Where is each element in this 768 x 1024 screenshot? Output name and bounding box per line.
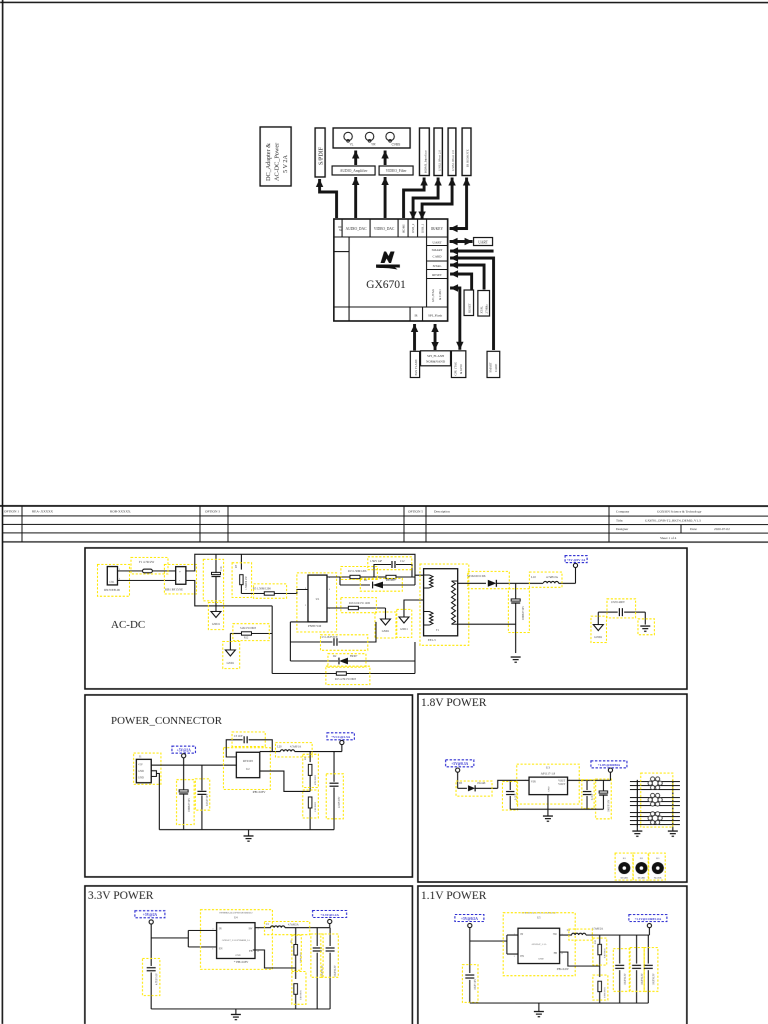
svg-text:Company: Company <box>616 510 629 514</box>
wire XTAL arrow <box>450 261 484 289</box>
svg-text:HDMI_Interface: HDMI_Interface <box>424 150 428 173</box>
svg-text:YR: YR <box>371 143 376 147</box>
connector AV ladder <box>630 773 680 827</box>
resistor divider R9 <box>292 968 306 1009</box>
svg-text:MARK: MARK <box>638 877 646 880</box>
power flag +5V 1.1V section <box>455 915 484 942</box>
svg-text:GND: GND <box>538 958 543 961</box>
capacitor C1 bulk <box>177 765 195 830</box>
capacitor C30 input <box>142 938 159 1009</box>
svg-text:47K/0603: 47K/0603 <box>314 774 317 785</box>
fiducial MARK1 <box>615 853 633 880</box>
svg-text:R1: R1 <box>623 857 627 860</box>
resistor R15 <box>272 642 415 685</box>
block SPDIF connector <box>315 128 325 177</box>
capacitor C21 <box>582 780 594 810</box>
svg-text:POWER_CONNECTOR: POWER_CONNECTOR <box>111 715 223 727</box>
svg-text:1.1V POWER: 1.1V POWER <box>421 890 487 902</box>
svg-text:RESET: RESET <box>432 273 442 277</box>
capacitor C13 feedback <box>290 622 376 650</box>
capacitor C2 <box>195 765 209 830</box>
block CPU JTAG <box>451 351 465 378</box>
svg-text:27MHz: 27MHz <box>485 304 489 314</box>
svg-text:CARD: CARD <box>433 255 443 259</box>
svg-text:U1: U1 <box>316 597 320 601</box>
block DC adapter power <box>260 127 291 186</box>
svg-text:Title:: Title: <box>616 519 623 523</box>
svg-text:C3 1UF: C3 1UF <box>234 735 243 738</box>
svg-text:SPI_Flash: SPI_Flash <box>428 314 442 318</box>
power flag VCC output <box>327 733 354 752</box>
svg-text:3.3V POWER: 3.3V POWER <box>88 890 154 902</box>
svg-text:MARK: MARK <box>654 877 662 880</box>
svg-text:IN: IN <box>520 933 523 936</box>
svg-text:Date:: Date: <box>690 527 697 531</box>
svg-text:SW: SW <box>248 927 252 930</box>
svg-text:EE1-3: EE1-3 <box>428 638 436 642</box>
svg-text:GND: GND <box>138 770 144 773</box>
title block grid <box>0 506 768 542</box>
chip GX6701 outline <box>334 219 448 321</box>
wire USB2 arrow <box>409 178 441 220</box>
wire bottom rail power connector <box>159 829 334 831</box>
svg-text:VIN: VIN <box>531 781 536 784</box>
svg-text:-: - <box>179 578 180 582</box>
svg-text:F1 4.7R/2W: F1 4.7R/2W <box>139 560 154 564</box>
svg-text:1: 1 <box>257 928 258 930</box>
svg-text:GND1: GND1 <box>212 622 221 626</box>
IC U5 SY8088 1.1V <box>503 912 575 976</box>
diode D1 <box>340 577 415 591</box>
svg-text:1: 1 <box>514 956 515 958</box>
svg-text:10UF/6.3V: 10UF/6.3V <box>652 973 655 985</box>
svg-text:FR307: FR307 <box>350 655 358 658</box>
svg-text:PAN FLASH: PAN FLASH <box>414 359 418 376</box>
svg-text:100UF/10V: 100UF/10V <box>607 800 610 813</box>
svg-text:* PB=0.8V: * PB=0.8V <box>234 960 249 964</box>
label 1.8V POWER <box>421 697 487 709</box>
power flag +3.3V output <box>313 910 347 927</box>
svg-text:U2: U2 <box>246 768 250 771</box>
svg-text:KB1 BF15/SE: KB1 BF15/SE <box>165 587 183 591</box>
svg-text:U4: U4 <box>234 916 238 919</box>
wire 1.8V bottom rail <box>510 808 603 810</box>
wire diode to VIN <box>498 780 529 788</box>
svg-text:AUDIO_DAC: AUDIO_DAC <box>346 227 368 231</box>
svg-text:NOR&NAND: NOR&NAND <box>426 360 446 364</box>
ground GND1 Y-cap left <box>591 616 607 642</box>
svg-text:+3.3V@1.2A: +3.3V@1.2A <box>320 913 339 917</box>
svg-text:L20: L20 <box>277 745 282 748</box>
wire 3.3V bottom rail <box>151 1008 330 1010</box>
capacitor C31 output <box>311 928 324 1009</box>
svg-text:S/PDIF: S/PDIF <box>319 146 325 165</box>
svg-text:U5: U5 <box>537 917 541 920</box>
page left border <box>1 0 3 1024</box>
svg-text:RS1M07: RS1M07 <box>386 579 396 582</box>
svg-text:10UF/6.3V: 10UF/6.3V <box>624 973 627 985</box>
resistor R12 divider <box>230 624 272 650</box>
svg-text:CPU JTAG: CPU JTAG <box>454 361 458 376</box>
title block texts <box>4 509 730 540</box>
svg-text:HDMI: HDMI <box>402 225 406 234</box>
resistor divider R11 <box>593 966 608 1003</box>
power flag +5V 1.8V section <box>446 760 474 789</box>
svg-text:2: 2 <box>305 605 306 607</box>
svg-text:100K/0603: 100K/0603 <box>603 986 606 998</box>
svg-text:+5V@2A: +5V@2A <box>143 913 158 917</box>
label 3.3V POWER <box>88 890 154 902</box>
svg-text:R12: R12 <box>244 636 249 639</box>
label POWER_CONNECTOR <box>111 715 223 727</box>
svg-text:APS2347_1.1A: APS2347_1.1A <box>531 943 546 946</box>
svg-text:+5V: +5V <box>138 763 143 766</box>
svg-text:R3: R3 <box>656 857 660 860</box>
block AUDIO amplifier <box>332 166 375 175</box>
svg-text:5 V 2A: 5 V 2A <box>282 154 289 173</box>
IC U4 SY8088 <box>200 910 272 970</box>
svg-text:D5: D5 <box>459 782 463 785</box>
svg-text:10UF/6.3V: 10UF/6.3V <box>334 965 337 977</box>
capacitor C20 input <box>502 780 517 810</box>
svg-text:& GPIO: & GPIO <box>438 289 442 300</box>
svg-text:RESET: RESET <box>468 303 472 313</box>
svg-text:D2: D2 <box>333 655 337 658</box>
svg-text:R2: R2 <box>640 857 644 860</box>
IC U1 PN8571M <box>297 573 337 632</box>
block IR remote <box>462 128 471 176</box>
ground GND1 under R12 <box>223 641 240 668</box>
svg-text:EN: EN <box>520 955 524 958</box>
block XTAL 27MHz <box>478 291 490 317</box>
fiducial MARK2 <box>633 853 648 880</box>
block RESET <box>464 290 474 316</box>
svg-text:R16 0.1R/1W 1206: R16 0.1R/1W 1206 <box>349 602 371 605</box>
svg-text:+1.8V@300MA: +1.8V@300MA <box>598 763 621 767</box>
svg-text:+5V@0.3A: +5V@0.3A <box>451 762 468 766</box>
svg-text:YL: YL <box>350 143 354 147</box>
diode D5 <box>456 781 498 796</box>
svg-text:4.7uH/1A: 4.7uH/1A <box>290 745 301 748</box>
svg-text:1.50M/R 2W: 1.50M/R 2W <box>245 576 248 590</box>
chip logo Nationalchip <box>376 251 400 269</box>
resistor divider R4 <box>303 790 319 830</box>
wire audio dac arrow <box>352 177 359 218</box>
svg-text:2020-07-02: 2020-07-02 <box>714 527 730 531</box>
svg-text:APS2417_3.3A/SYB4088_1A: APS2417_3.3A/SYB4088_1A <box>222 939 250 942</box>
wire RESET arrow <box>450 270 472 289</box>
wire U3 output rail <box>568 779 611 781</box>
wire UART arrow <box>450 238 473 245</box>
svg-text:SMART: SMART <box>432 248 443 252</box>
ground output cap <box>511 657 521 662</box>
svg-text:SW: SW <box>553 933 557 936</box>
svg-text:EN: EN <box>219 947 223 950</box>
inductor L6 <box>560 928 650 941</box>
wire 1.1V bottom rail <box>470 1002 649 1004</box>
wire HDMI arrow <box>404 178 428 219</box>
block VIDEO filter <box>379 166 413 175</box>
svg-text:AP1117-1.8: AP1117-1.8 <box>541 771 556 775</box>
ground GND1 transformer primary <box>397 600 424 637</box>
wire transformer return <box>458 623 516 625</box>
svg-text:1N4148: 1N4148 <box>477 782 486 785</box>
bridge rectifier KB1 <box>164 564 196 594</box>
svg-text:XTAL: XTAL <box>433 264 442 268</box>
wire AC-DC left bus <box>272 606 317 674</box>
svg-text:USB_2: USB_2 <box>411 223 415 233</box>
svg-text:DIF: DIF <box>338 226 343 229</box>
ground GND1 right of U1 <box>375 608 396 638</box>
svg-text:SY8088AALC/PT201/PAM2312: SY8088AALC/PT201/PAM2312 <box>219 911 253 914</box>
svg-text:GX6701: GX6701 <box>366 279 406 291</box>
block NAND flash <box>410 351 419 377</box>
svg-text:R5 1.50M/1206: R5 1.50M/1206 <box>253 587 271 590</box>
block HDMI interface <box>419 128 429 176</box>
capacitor C43 <box>644 935 658 1003</box>
ground GND1 under C10 <box>208 602 223 629</box>
ground AV ladder right <box>668 827 678 836</box>
svg-text:SPI_FLASH: SPI_FLASH <box>427 354 444 358</box>
section POWER_CONNECTOR border <box>85 695 413 877</box>
svg-text:3.2K/1W 0603: 3.2K/1W 0603 <box>240 627 257 630</box>
label AC-DC <box>111 619 145 631</box>
svg-text:GX6701_DVB-T2_RKT4_DEMO_V1.3: GX6701_DVB-T2_RKT4_DEMO_V1.3 <box>645 519 701 523</box>
section AC-DC border <box>85 548 687 689</box>
svg-text:1.5KV 1uF: 1.5KV 1uF <box>370 560 383 563</box>
svg-text:R10: R10 <box>594 939 597 944</box>
svg-text:PB=0.8V: PB=0.8V <box>253 790 266 794</box>
svg-text:GND1: GND1 <box>227 662 235 665</box>
svg-text:IR/KEY: IR/KEY <box>431 227 443 231</box>
wire IR arrow <box>450 178 471 233</box>
svg-text:+1.1V@CORE1.0A: +1.1V@CORE1.0A <box>635 917 662 921</box>
ground 1.1V <box>534 1003 544 1017</box>
capacitor C22 bulk <box>596 779 612 819</box>
svg-text:+5V @5V 2A: +5V @5V 2A <box>567 558 586 562</box>
svg-text:SS56/100 6 D6: SS56/100 6 D6 <box>467 574 486 578</box>
svg-text:AC-DC: AC-DC <box>111 619 145 631</box>
svg-text:R13 1.50M/1206: R13 1.50M/1206 <box>348 570 367 573</box>
svg-text:0.1UF/16V: 0.1UF/16V <box>206 794 209 806</box>
inductor L20 <box>260 743 342 757</box>
svg-text:1.8V POWER: 1.8V POWER <box>421 697 487 709</box>
connector CN1 <box>97 564 129 596</box>
label 1.1V POWER <box>421 890 487 902</box>
svg-text:+5V@2A: +5V@2A <box>177 748 192 752</box>
capacitor C41 <box>613 935 629 1003</box>
svg-text:4.7uH/2A: 4.7uH/2A <box>288 923 299 926</box>
wire video dac arrow <box>381 177 388 218</box>
svg-text:L10: L10 <box>531 575 536 579</box>
svg-text:USB_1: USB_1 <box>421 223 425 233</box>
capacitor C14 output bulk <box>508 583 529 653</box>
svg-text:Designer: Designer <box>616 527 629 531</box>
svg-text:USB2.0Port 2.0: USB2.0Port 2.0 <box>437 150 441 171</box>
svg-text:USB2.0Port 2.0: USB2.0Port 2.0 <box>451 150 455 171</box>
wire CN1 to fuse <box>117 571 175 581</box>
capacitor C42 <box>630 935 644 1003</box>
power flag +1.1V output <box>629 915 667 936</box>
resistor divider R3 <box>303 752 319 792</box>
diode D6 output <box>458 571 543 588</box>
transformer T1 <box>420 564 469 645</box>
svg-text:VIDEO_Filter: VIDEO_Filter <box>386 169 408 173</box>
svg-text:Sheet 1 of 4: Sheet 1 of 4 <box>660 536 677 540</box>
svg-text:SMART: SMART <box>489 362 493 372</box>
svg-text:GOXSIN Science & Technology: GOXSIN Science & Technology <box>657 510 702 514</box>
resistor R13 and R14 top <box>327 566 415 579</box>
block UART <box>474 238 493 246</box>
svg-text:OPTION 1: OPTION 1 <box>4 509 19 513</box>
svg-text:R15 4.7R/1W 0603: R15 4.7R/1W 0603 <box>335 678 357 681</box>
block SPI flash <box>421 351 451 366</box>
svg-text:SP: SP <box>339 229 343 232</box>
wire amp to jack arrow <box>352 150 359 165</box>
svg-text:C13 1.0UF/50 E: C13 1.0UF/50 E <box>320 636 338 639</box>
svg-text:& GPIO: & GPIO <box>459 363 463 374</box>
wire FB to divider <box>260 771 310 791</box>
wire 1.1V input rail <box>470 935 518 954</box>
fuse F1 <box>131 557 176 574</box>
svg-text:62K/0603: 62K/0603 <box>603 948 606 958</box>
svg-text:GND: GND <box>138 776 144 779</box>
diode D2 <box>290 654 415 668</box>
capacitor C3 bypass <box>226 732 272 757</box>
svg-text:UART: UART <box>478 240 488 244</box>
svg-text:4: 4 <box>561 953 563 955</box>
resistor R16 <box>327 598 386 613</box>
svg-text:0.1UF: 0.1UF <box>591 793 594 800</box>
svg-text:UART: UART <box>432 241 442 245</box>
svg-text:1000UF/16V: 1000UF/16V <box>522 606 525 620</box>
capacitor CY1 Y-cap <box>598 599 645 625</box>
svg-text:4.7uH/2A: 4.7uH/2A <box>592 928 603 931</box>
wire FB 3.3V <box>253 950 296 968</box>
resistor R7 <box>232 554 252 597</box>
svg-text:GND1: GND1 <box>594 635 603 639</box>
chip name GX6701 <box>366 279 406 291</box>
wire USB1 arrow <box>418 178 455 220</box>
svg-text:1N/D 400V: 1N/D 400V <box>611 600 626 604</box>
power flag +5V 3.3V section <box>135 911 165 938</box>
ground earth Y-cap right <box>638 619 654 635</box>
section 1.1V POWER border <box>418 886 687 1024</box>
capacitor C12 snubber <box>368 557 412 577</box>
svg-text:XTAL: XTAL <box>480 306 484 314</box>
svg-text:T1: T1 <box>436 629 440 632</box>
svg-text:+VCC@1.5A: +VCC@1.5A <box>331 735 351 739</box>
svg-text:4: 4 <box>257 951 259 953</box>
svg-text:FB: FB <box>554 952 557 955</box>
capacitor C10 bulk <box>203 554 223 611</box>
capacitor C40 input <box>462 941 478 1003</box>
svg-text:GND: GND <box>547 786 550 792</box>
svg-text:ROB-XXXXX.: ROB-XXXXX. <box>110 509 131 513</box>
chip pin labels <box>338 223 443 317</box>
wire NAND arrow <box>411 324 418 351</box>
svg-text:IR REMOTE: IR REMOTE <box>466 149 470 167</box>
svg-text:15K/0603: 15K/0603 <box>314 801 317 812</box>
ground 3.3V <box>231 1009 241 1020</box>
inductor L10 <box>529 572 575 587</box>
wire bridge to rail <box>186 554 424 606</box>
ground power connector <box>244 830 254 842</box>
svg-text:DC_Adapter &: DC_Adapter & <box>265 143 272 181</box>
wire smart card arrow b <box>450 254 494 350</box>
svg-text:REA-.XXXXX: REA-.XXXXX <box>32 509 54 513</box>
wire filter to jack arrow <box>381 150 388 165</box>
wire SPI flash arrow <box>431 324 438 350</box>
wire 3.3V input rail <box>151 930 216 947</box>
svg-text:AC-DC_Power: AC-DC_Power <box>274 143 281 181</box>
inductor L5 <box>255 921 330 934</box>
capacitor C32 output <box>321 928 339 1009</box>
svg-text:GND1: GND1 <box>382 630 390 633</box>
block USB port A <box>434 128 442 176</box>
fiducial MARK3 <box>649 853 666 880</box>
svg-text:C12: C12 <box>400 560 405 563</box>
ground U3 <box>543 795 553 822</box>
svg-text:10UF/6.3V: 10UF/6.3V <box>641 973 644 985</box>
svg-text:IN: IN <box>219 927 222 930</box>
svg-text:C10: C10 <box>220 566 223 571</box>
resistor divider R10 <box>593 935 607 966</box>
power flag +5V output <box>565 556 587 584</box>
svg-text:6: 6 <box>329 589 331 591</box>
resistor divider R8 <box>290 928 303 971</box>
wire J1 rail <box>151 765 236 830</box>
svg-text:CN1: CN1 <box>110 581 116 584</box>
svg-text:MARK: MARK <box>621 877 629 880</box>
svg-text:1000UF/16V: 1000UF/16V <box>188 798 191 812</box>
svg-text:+: + <box>179 570 181 574</box>
svg-text:1: 1 <box>212 948 213 950</box>
svg-text:4.7uH/2A: 4.7uH/2A <box>546 575 559 579</box>
capacitor C4 output <box>326 752 343 830</box>
IC U3 AP1117 <box>517 764 580 804</box>
svg-text:IR: IR <box>415 314 418 318</box>
block AV RCA jacks <box>333 128 410 148</box>
svg-text:CVBS: CVBS <box>392 143 401 147</box>
wire smart card arrow a <box>450 247 494 254</box>
svg-text:D1: D1 <box>364 579 368 582</box>
wire FB 1.1V <box>560 952 600 966</box>
section 1.8V POWER border <box>418 694 687 882</box>
resistor R5 <box>241 584 308 598</box>
svg-text:22UF/10V: 22UF/10V <box>338 796 341 808</box>
svg-text:GND: GND <box>235 954 240 957</box>
wire JTAG arrow <box>450 284 464 350</box>
svg-text:OPTION 5: OPTION 5 <box>408 510 423 514</box>
svg-text:VOUT: VOUT <box>558 783 566 786</box>
svg-text:PB=0.6V: PB=0.6V <box>557 967 570 971</box>
power flag +5V input <box>172 746 196 765</box>
svg-text:+5V@0.5A: +5V@0.5A <box>461 917 478 921</box>
svg-text:Description: Description <box>434 510 450 514</box>
power flag +1.8V output <box>591 761 627 781</box>
connector J1 <box>134 753 161 784</box>
svg-text:VIDEO_DAC: VIDEO_DAC <box>374 227 395 231</box>
svg-text:RT9193: RT9193 <box>243 759 253 763</box>
svg-text:R7: R7 <box>235 564 238 568</box>
svg-text:33K/0603: 33K/0603 <box>299 990 302 1000</box>
svg-text:OPTION 3: OPTION 3 <box>205 509 220 513</box>
page top border <box>0 1 768 3</box>
svg-text:4.7UF/10V: 4.7UF/10V <box>155 973 158 985</box>
block smart card <box>487 351 500 377</box>
IC U2 RT9193 <box>223 748 270 794</box>
